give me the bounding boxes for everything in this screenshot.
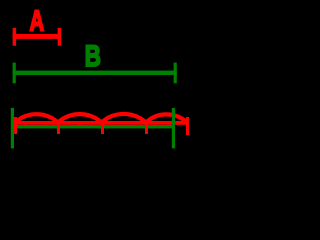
svg-text:A: A [30,6,45,37]
dimension line B [13,63,177,84]
scallop end tick [186,117,189,135]
scalloped curve baseline (red) [14,121,188,125]
scallop interior tick 3 [145,122,148,134]
scallop interior tick 2 [101,122,104,134]
scalloped arcs (red) [15,114,187,123]
scallop interior tick 1 [57,122,60,134]
chord left tick (green) [11,108,14,148]
dimension line A [13,28,62,46]
chord right tick (green) [172,108,175,148]
scallop start tick [14,117,17,134]
svg-text:B: B [85,39,101,73]
straight chord line (green) [13,125,175,128]
